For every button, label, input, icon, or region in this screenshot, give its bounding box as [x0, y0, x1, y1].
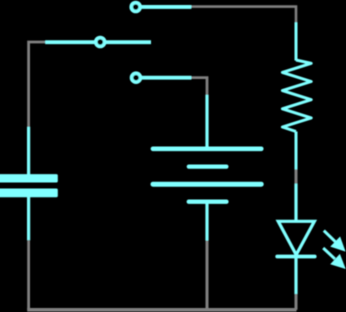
wire from capacitor to bottom rail [27, 240, 30, 310]
resistor R1 [282, 22, 311, 169]
wire from switch S3 to battery [191, 78, 207, 96]
switch S1 (top) [131, 2, 191, 11]
switch S2 (left) [45, 37, 151, 46]
switch S3 (middle) [131, 73, 191, 82]
LED D1 [277, 184, 315, 295]
wire from switch S2 to capacitor (left) [29, 42, 46, 127]
wire from battery to bottom rail [206, 240, 209, 310]
LED emission arrow 1 [319, 225, 346, 256]
bottom wire rail [27, 308, 296, 312]
wire from switch S1 to resistor (top right) [191, 7, 296, 23]
wire from LED to bottom rail [295, 294, 298, 310]
capacitor C1 [0, 127, 58, 241]
wire from resistor to LED [295, 169, 298, 183]
battery B1 [153, 95, 261, 241]
LED emission arrow 2 [318, 243, 346, 274]
